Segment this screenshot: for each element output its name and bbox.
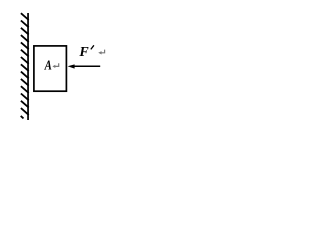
- wall vertical line: [27, 13, 29, 120]
- svg-text:A: A: [44, 57, 52, 72]
- force arrow F' shaft: [74, 65, 100, 67]
- svg-text:F: F: [78, 45, 89, 60]
- paragraph mark after A: [52, 63, 58, 68]
- paragraph mark after F': [98, 50, 104, 55]
- force arrow F' head: [68, 64, 75, 68]
- background: [0, 0, 107, 127]
- wall hatching: [21, 13, 29, 118]
- prime mark of F': [91, 45, 94, 49]
- block A outline: [34, 46, 67, 91]
